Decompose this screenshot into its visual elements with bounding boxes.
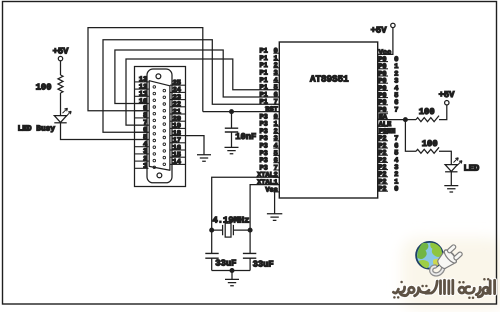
- wire LED to ground: [450, 172, 452, 186]
- wire R to +5V right: [439, 105, 447, 120]
- connector mounting hole top: [156, 74, 161, 79]
- EA overline: [380, 113, 388, 115]
- U1 right pins Vcc P0.0-P0.7 EA ALE PSEN P2.7-P2.0: [378, 49, 399, 194]
- capacitor C3 33uF: [243, 230, 274, 270]
- logo plug: [434, 243, 463, 272]
- IC U1 AT89S51: [279, 42, 377, 198]
- ground D2: [444, 186, 458, 192]
- connector left pin stubs 13..1: [135, 82, 149, 168]
- svg-text:AT89S51: AT89S51: [310, 74, 349, 85]
- resistor R1 100: [36, 75, 63, 93]
- svg-text:100: 100: [422, 139, 438, 149]
- svg-text:14: 14: [173, 159, 181, 167]
- svg-text:10nF: 10nF: [235, 132, 256, 142]
- svg-text:4.19MHz: 4.19MHz: [213, 216, 250, 226]
- svg-text:Vss: Vss: [265, 186, 277, 194]
- power +5V terminal (left): [53, 47, 70, 61]
- LED D1 Busy: [18, 108, 72, 133]
- resistor R3 100: [416, 139, 439, 153]
- wire DB25 pin9 to RST net: [88, 28, 203, 112]
- node crystal right junction: [248, 228, 252, 232]
- wire XTAL1 to crystal: [250, 185, 279, 231]
- svg-text:7: 7: [394, 106, 398, 114]
- svg-text:100: 100: [419, 107, 435, 117]
- wire DB25 pin7 to P1.5: [126, 59, 279, 125]
- power +5V terminal (right): [439, 90, 456, 105]
- svg-text:P2: P2: [378, 186, 386, 194]
- svg-text:+5V: +5V: [371, 26, 388, 36]
- logo cable: [431, 265, 443, 275]
- svg-text:100: 100: [36, 82, 52, 92]
- svg-text:1: 1: [143, 163, 147, 171]
- wire +5V to R Busy: [60, 61, 62, 75]
- connector mounting hole bottom: [157, 173, 162, 178]
- wire DB25 pin18 to ground: [186, 136, 205, 155]
- wire junction down to LED resistor: [405, 120, 416, 152]
- wire Vcc to +5V: [378, 28, 393, 55]
- LED D2: [445, 158, 479, 174]
- wire caps common: [212, 270, 250, 272]
- crystal X1 4.19MHz: [212, 216, 250, 237]
- svg-text:33uF: 33uF: [253, 259, 274, 269]
- U1 left pins P1.0-P1.7 RST P3.0-P3.7 XTAL2 XTAL1 Vss: [257, 48, 279, 195]
- node EA junction: [404, 118, 408, 122]
- connector DB25 J1 outer box: [135, 67, 186, 187]
- RST overline: [265, 106, 277, 108]
- svg-text:+5V: +5V: [53, 47, 70, 57]
- node caps junction: [230, 269, 234, 273]
- svg-text:LED Busy: LED Busy: [18, 124, 56, 133]
- logo text (Arabic): [393, 280, 494, 297]
- svg-text:0: 0: [394, 186, 398, 194]
- capacitor C2 33uF: [205, 230, 236, 270]
- ground DB25 pin18: [197, 155, 211, 161]
- svg-text:LED: LED: [464, 164, 480, 174]
- node RST junction: [230, 110, 234, 114]
- resistor R2 100: [405, 107, 439, 122]
- svg-text:33uF: 33uF: [215, 259, 236, 269]
- wire R to LED Busy: [60, 93, 62, 116]
- connector right pin stubs 25..14: [170, 85, 186, 164]
- connector DB25 shell: [147, 69, 172, 183]
- power +5V terminal (top): [371, 23, 395, 35]
- connector contact circles left column: [153, 86, 156, 169]
- wire RST to chip: [203, 111, 279, 113]
- node crystal left junction: [210, 228, 214, 232]
- wire XTAL2 to crystal: [212, 177, 280, 230]
- logo globe: [416, 242, 443, 269]
- wire R to LED: [439, 151, 451, 164]
- connector contact circles right column: [163, 89, 166, 165]
- ground C1: [225, 147, 239, 153]
- wire Vss to ground: [274, 192, 276, 214]
- wire D1 cathode to DB25 pin 5: [61, 123, 149, 140]
- connector DB25 D-face: [149, 81, 170, 171]
- PSEN overline: [379, 127, 395, 129]
- svg-text:+5V: +5V: [439, 90, 456, 100]
- wire EA to junction: [378, 119, 406, 121]
- wire DB25 pin10 to P1.6: [115, 50, 279, 104]
- capacitor C1 10nF: [225, 112, 257, 148]
- ground Vss: [267, 214, 282, 221]
- wire to crystal ground: [231, 271, 233, 280]
- ground crystal caps: [225, 279, 239, 285]
- wire DB25 pin6 to P1.7: [103, 40, 279, 133]
